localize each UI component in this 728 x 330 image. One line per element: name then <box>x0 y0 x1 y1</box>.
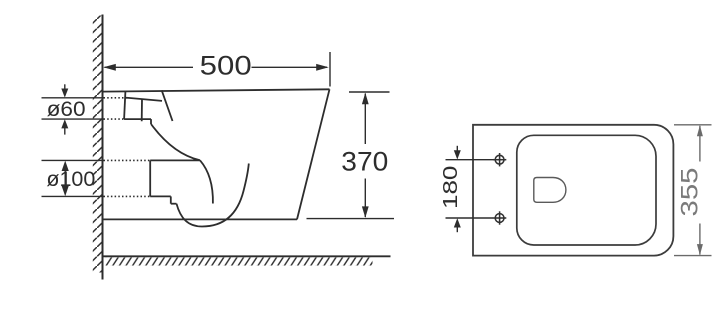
svg-text:355: 355 <box>676 168 703 217</box>
extension line right <box>329 52 331 87</box>
outlet pipe left vertical <box>149 160 151 196</box>
dim line left segment <box>105 66 194 68</box>
top arrow (down) <box>454 150 461 159</box>
short ledge <box>171 203 177 205</box>
outer rim <box>473 125 673 256</box>
svg-text:180: 180 <box>439 166 462 210</box>
down arrow <box>697 244 703 255</box>
up arrow <box>697 125 703 136</box>
dim line bottom <box>42 118 103 120</box>
dim line upper segment <box>364 94 366 145</box>
dotted line outlet bottom <box>104 195 150 197</box>
flush hole (D shape) <box>534 178 566 203</box>
svg-text:ø60: ø60 <box>47 98 86 121</box>
dim line bottom <box>42 195 103 197</box>
flush valve slant line <box>125 98 162 101</box>
up arrow <box>62 161 69 171</box>
top arrow shaft <box>456 146 458 152</box>
inner seat ring <box>517 135 656 245</box>
svg-text:370: 370 <box>341 147 388 177</box>
left arrow <box>103 64 116 71</box>
step below flush pipe <box>150 119 152 124</box>
dim line upper segment <box>699 126 701 162</box>
wall line <box>102 15 104 280</box>
flush pipe left vertical (line A) <box>124 92 125 120</box>
mounting hole top (crosshair) <box>493 153 506 166</box>
up arrow <box>362 93 369 105</box>
svg-text:500: 500 <box>200 51 252 81</box>
bowl U curve <box>177 164 249 227</box>
hidden pipe dotted lines <box>104 98 150 197</box>
flush valve vertical (line C) <box>141 99 143 121</box>
bottom arrow (up) <box>454 218 461 227</box>
outlet pipe top horizontal <box>150 159 200 161</box>
mounting hole bottom (crosshair) <box>493 211 506 224</box>
svg-text:ø100: ø100 <box>46 168 95 191</box>
bottom arrow shaft <box>456 226 458 232</box>
extension line bottom <box>674 255 712 257</box>
step below outlet <box>170 196 172 203</box>
dim line top <box>42 159 103 161</box>
wall hatching <box>93 16 103 273</box>
top arrow (down) <box>61 89 68 98</box>
dim line lower segment <box>364 179 366 218</box>
extension line top <box>674 124 712 126</box>
toilet top edge <box>103 89 330 91</box>
outlet pipe bottom horizontal <box>150 195 171 197</box>
toilet right edge <box>297 89 330 219</box>
top arrow shaft <box>64 84 66 91</box>
down arrow <box>362 206 369 218</box>
down arrow <box>62 186 69 196</box>
bottom arrow (up) <box>61 119 68 128</box>
extension line bottom <box>307 218 395 220</box>
extension line bottom <box>446 217 494 219</box>
bottom arrow shaft <box>64 128 66 135</box>
extension line top <box>349 91 390 93</box>
arrow shaft <box>64 165 66 192</box>
dotted line flush pipe bottom <box>104 118 124 120</box>
floor hatching <box>106 257 373 265</box>
dim line lower segment <box>699 224 701 255</box>
dotted line outlet top <box>104 159 150 161</box>
dim line right segment <box>252 66 328 68</box>
trapway steep down curve <box>200 160 213 203</box>
dotted line flush pipe top <box>104 97 129 99</box>
right arrow <box>316 64 329 71</box>
flush valve steep line (line B) <box>162 90 173 121</box>
flush pipe bottom horizontal <box>124 118 151 120</box>
trapway upper S-curve <box>151 124 200 160</box>
dim line top <box>42 97 103 99</box>
floor line <box>103 255 391 257</box>
toilet bottom edge <box>103 218 298 220</box>
extension line top <box>446 159 494 161</box>
